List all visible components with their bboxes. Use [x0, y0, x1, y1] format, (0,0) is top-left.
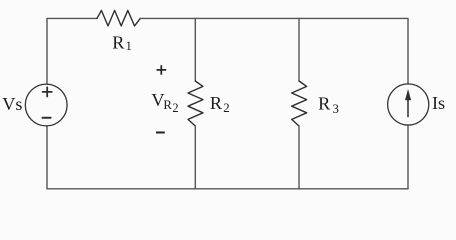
wire R2 branch bottom: [194, 126, 196, 189]
svg-text:Vs: Vs: [2, 94, 22, 114]
Vs minus sign: [43, 117, 51, 119]
Is arrow: [407, 98, 409, 117]
Is arrowhead: [405, 90, 410, 100]
wire left-bottom segment: [46, 126, 48, 189]
resistor R1: [97, 10, 140, 26]
minus sign of VR2: [156, 132, 165, 134]
wire R3 branch top: [298, 18, 300, 81]
wire top-right segment: [140, 18, 408, 84]
resistor R2: [188, 81, 203, 126]
svg-text:Is: Is: [432, 93, 445, 113]
resistor R3: [292, 81, 307, 126]
svg-text:R1: R1: [112, 33, 132, 54]
plus sign of VR2: [157, 65, 167, 75]
voltage source Vs: [25, 84, 67, 126]
current source Is: [388, 84, 429, 125]
svg-text:R3: R3: [318, 94, 339, 116]
Vs plus sign: [43, 87, 52, 96]
wire bottom: [47, 188, 408, 190]
wire top-left segment: [47, 18, 97, 84]
wire right-bottom segment: [407, 125, 409, 189]
wire R2 branch top: [194, 18, 196, 81]
svg-text:R2: R2: [210, 93, 230, 115]
svg-text:VR2: VR2: [151, 90, 178, 115]
wire R3 branch bottom: [298, 126, 300, 189]
